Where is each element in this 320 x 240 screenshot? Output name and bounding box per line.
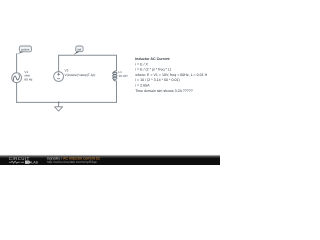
voltage source V2 bbox=[54, 72, 64, 82]
svg-text:Time domain sim shows 3.2A ???: Time domain sim shows 3.2A ????? bbox=[135, 89, 193, 93]
svg-text:V2: V2 bbox=[65, 68, 69, 72]
wire bbox=[59, 54, 117, 56]
svg-text:ind: ind bbox=[77, 47, 81, 51]
footer title bbox=[47, 157, 100, 164]
svg-text:i = E / X: i = E / X bbox=[135, 62, 148, 66]
wire bbox=[16, 54, 18, 73]
annotation text bbox=[135, 57, 207, 93]
svg-text:V(cosine)*vstep(T-1p): V(cosine)*vstep(T-1p) bbox=[65, 73, 96, 77]
svg-text:i = 2.65A: i = 2.65A bbox=[135, 84, 150, 88]
svg-text:cosine: cosine bbox=[21, 47, 30, 51]
inductor L1 bbox=[113, 71, 117, 81]
label L1 value bbox=[118, 70, 127, 78]
wire bbox=[116, 81, 118, 102]
wire bbox=[16, 83, 18, 103]
svg-text:60 Hz: 60 Hz bbox=[24, 77, 33, 81]
svg-text:i = 10 / (2 * 3.14 * 60 * 0.01: i = 10 / (2 * 3.14 * 60 * 0.01) bbox=[135, 78, 179, 82]
footer bar bbox=[0, 155, 220, 158]
svg-text:where: E = V1 = 10V, freq = 60: where: E = V1 = 10V, freq = 60Hz, L = 0.… bbox=[135, 73, 207, 77]
label V1 value bbox=[24, 70, 33, 82]
wire bbox=[58, 55, 60, 71]
svg-text:http://www.circuitlab.com/c/np: http://www.circuitlab.com/c/npf52qe bbox=[47, 160, 97, 164]
svg-text:CIRCUIT: CIRCUIT bbox=[9, 156, 30, 161]
wire bbox=[17, 101, 117, 103]
logo CircuitLab bbox=[9, 156, 39, 165]
svg-text:10 mH: 10 mH bbox=[118, 74, 127, 78]
label V2 value bbox=[65, 68, 96, 77]
svg-text:i = E / (2 * pi * freq * L): i = E / (2 * pi * freq * L) bbox=[135, 68, 171, 72]
node cosine bbox=[17, 46, 32, 54]
voltage source V1 bbox=[12, 73, 22, 83]
svg-text:LAB: LAB bbox=[31, 161, 38, 165]
node ind bbox=[73, 46, 83, 55]
ground bbox=[55, 102, 63, 111]
svg-text:Inductor AC Current: Inductor AC Current bbox=[135, 57, 170, 61]
junction bbox=[58, 101, 60, 103]
wire bbox=[116, 55, 118, 70]
